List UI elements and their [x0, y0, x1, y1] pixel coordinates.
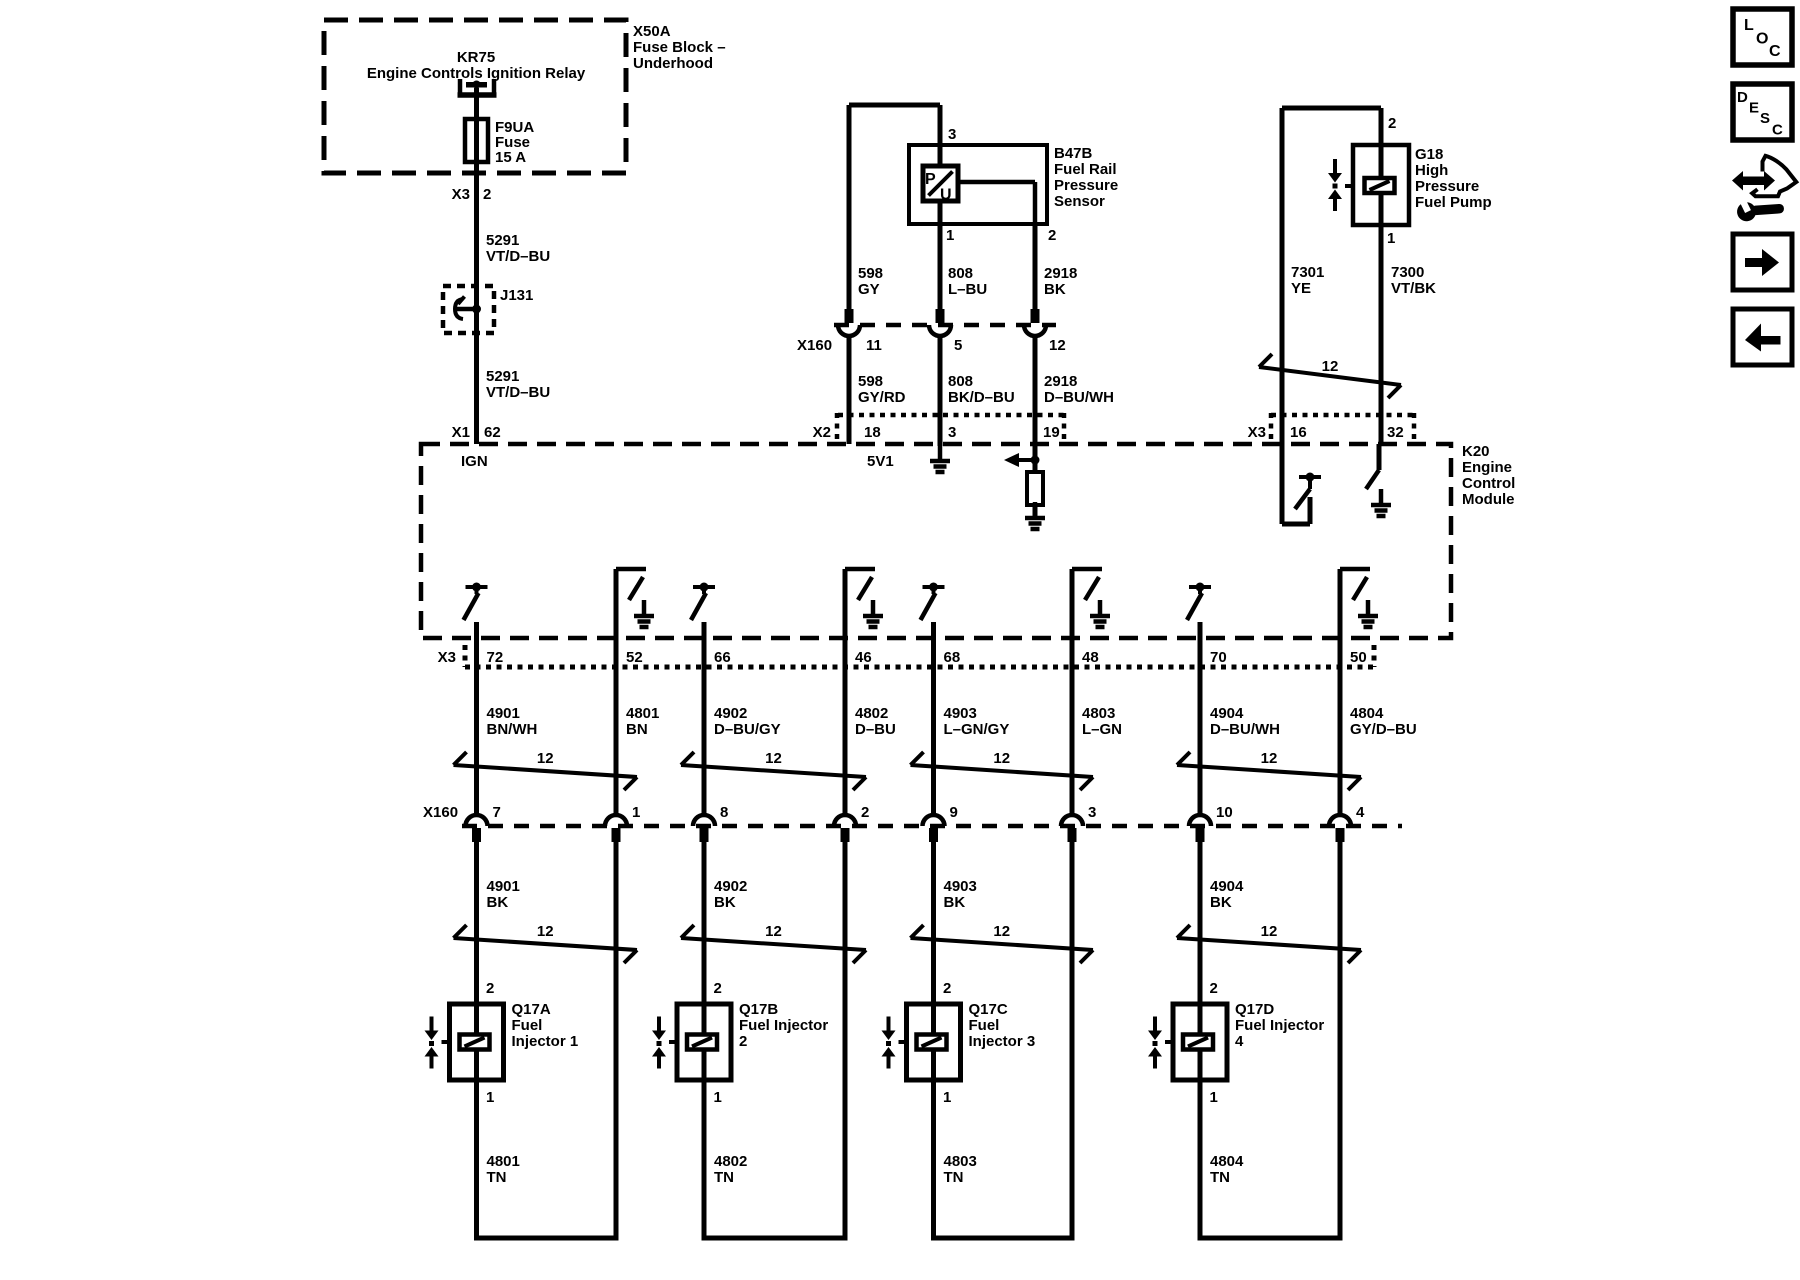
svg-text:BK: BK [1210, 894, 1232, 911]
label pin 2 sensor [1048, 227, 1056, 244]
label injector pin 2 Q17B [714, 980, 722, 997]
wire 4903 L-GN/GY [931, 622, 936, 815]
label pin 16 [1290, 424, 1307, 441]
wire 808 BK/D-BU [938, 336, 943, 445]
svg-text:L–BU: L–BU [948, 281, 987, 298]
svg-text:P: P [925, 171, 936, 188]
connector X160 sensor pin 11 [838, 309, 860, 336]
svg-text:C: C [1772, 122, 1783, 139]
connector label X3 pin 2 [452, 186, 492, 203]
wire label 4901 BK [487, 878, 520, 911]
wire label 4901 [487, 705, 538, 738]
connector X160 pin 7 [466, 815, 488, 842]
wire 4902 BK [702, 840, 707, 1004]
connector X160 sensor dashed line [834, 323, 1056, 328]
label injector pin 1 Q17D [1210, 1089, 1218, 1106]
svg-text:4: 4 [1235, 1033, 1244, 1050]
svg-text:598: 598 [858, 265, 883, 282]
svg-text:12: 12 [1261, 750, 1278, 767]
svg-text:72: 72 [487, 649, 504, 666]
svg-text:4904: 4904 [1210, 878, 1244, 895]
label pin 32 [1387, 424, 1404, 441]
ECM injector high driver pin 70 [1187, 583, 1211, 621]
svg-text:X160: X160 [797, 337, 832, 354]
svg-text:D–BU/WH: D–BU/WH [1210, 721, 1280, 738]
wire label 7301 YE [1291, 264, 1324, 297]
connector X3 pump dotted outline [1271, 413, 1414, 444]
wire 4803 TN [931, 1080, 936, 1238]
svg-text:12: 12 [765, 750, 782, 767]
sensor internal wire to pin 2 [958, 182, 1035, 224]
svg-text:3: 3 [948, 126, 956, 143]
fuel injector Q17A box [450, 1004, 504, 1080]
wire 598 GY sensor pin3 branch [849, 105, 940, 309]
svg-text:L–GN/GY: L–GN/GY [944, 721, 1010, 738]
svg-text:1: 1 [1387, 230, 1395, 247]
svg-text:12: 12 [537, 923, 554, 940]
label X160 sensor [797, 337, 832, 354]
svg-text:62: 62 [484, 424, 501, 441]
svg-text:4901: 4901 [487, 878, 520, 895]
svg-text:18: 18 [864, 424, 881, 441]
svg-text:2: 2 [943, 980, 951, 997]
svg-text:D–BU: D–BU [855, 721, 896, 738]
svg-text:X3: X3 [452, 186, 470, 203]
svg-text:2: 2 [486, 980, 494, 997]
svg-text:O: O [1756, 31, 1768, 48]
wire 4903 BK [931, 840, 936, 1004]
svg-text:2: 2 [1210, 980, 1218, 997]
svg-text:Pressure: Pressure [1054, 177, 1118, 194]
connector X160 pin 9 [923, 815, 945, 842]
svg-text:808: 808 [948, 373, 973, 390]
label pump pin 2 [1388, 115, 1396, 132]
connector X160 pin 10 [1189, 815, 1211, 842]
svg-text:X1: X1 [452, 424, 470, 441]
svg-text:U: U [940, 187, 952, 204]
connector X160 pin 8 [693, 815, 715, 842]
fuel injector Q17D box [1173, 1004, 1227, 1080]
label X160 pin 1 [632, 804, 640, 821]
svg-text:2: 2 [861, 804, 869, 821]
wire label 4801 [626, 705, 659, 738]
wire 2918 D-BU/WH [1033, 336, 1038, 460]
label pin 18 [864, 424, 881, 441]
ECM ground switch pin 32 [1366, 444, 1391, 516]
svg-text:4903: 4903 [944, 878, 977, 895]
wire through injector Q17B [702, 1004, 707, 1080]
svg-text:7301: 7301 [1291, 264, 1324, 281]
svg-text:32: 32 [1387, 424, 1404, 441]
svg-text:D–BU/WH: D–BU/WH [1044, 389, 1114, 406]
svg-text:Fuel Injector: Fuel Injector [1235, 1017, 1324, 1034]
wire through injector Q17D [1198, 1004, 1203, 1080]
ECM injector high driver pin 68 [921, 583, 945, 621]
svg-text:Fuel: Fuel [512, 1017, 543, 1034]
injector return wire [1070, 840, 1075, 1238]
svg-text:52: 52 [626, 649, 643, 666]
svg-text:TN: TN [487, 1169, 507, 1186]
svg-text:4801: 4801 [626, 705, 659, 722]
wire label 808 L-BU [948, 265, 987, 298]
injector Q17B solenoid coil [687, 1035, 717, 1050]
label injector pin 2 Q17A [486, 980, 494, 997]
injector Q17A coil stub [442, 1040, 450, 1044]
injector return wire [1338, 840, 1343, 1238]
label pin 48 [1082, 649, 1099, 666]
svg-text:BN: BN [626, 721, 648, 738]
ECM injector high driver pin 66 [691, 583, 715, 621]
injector Q17D solenoid coil [1183, 1035, 1213, 1050]
ECM injector ground driver pin 50 [1340, 569, 1378, 816]
svg-text:1: 1 [943, 1089, 951, 1106]
label injector pin 1 Q17C [943, 1089, 951, 1106]
svg-text:7: 7 [493, 804, 501, 821]
wire label 4904 [1210, 705, 1280, 738]
injector Q17A bottom return wire [474, 1236, 619, 1241]
svg-text:Sensor: Sensor [1054, 193, 1105, 210]
wire label 5291 VT/D-BU lower [486, 368, 550, 401]
label pin 11 [866, 337, 882, 354]
svg-text:L: L [1744, 17, 1754, 34]
twisted pair crossing upper [911, 750, 1094, 790]
svg-text:4803: 4803 [944, 1153, 977, 1170]
ground ECM resistor [1025, 502, 1045, 529]
wire label 4802 [855, 705, 896, 738]
svg-text:Control: Control [1462, 475, 1515, 492]
svg-text:2: 2 [1048, 227, 1056, 244]
connector X160 pin 3 [1061, 815, 1083, 842]
wire label 598 GY/RD [858, 373, 906, 406]
wire 7301 YE pump [1282, 108, 1381, 444]
svg-text:4803: 4803 [1082, 705, 1115, 722]
svg-text:BK/D–BU: BK/D–BU [948, 389, 1015, 406]
label X160 pin 7 [493, 804, 501, 821]
wire 4802 TN [702, 1080, 707, 1238]
svg-text:K20: K20 [1462, 443, 1490, 460]
twisted pair crossing lower [911, 923, 1094, 963]
label J131 [500, 287, 533, 304]
svg-text:2: 2 [483, 186, 491, 203]
svg-text:YE: YE [1291, 280, 1311, 297]
wire label 598 GY [858, 265, 883, 298]
wire sensor pin 3 vertical [938, 105, 943, 166]
label pump pin 1 [1387, 230, 1395, 247]
injector Q17A valve arrows [425, 1017, 439, 1069]
svg-text:4904: 4904 [1210, 705, 1244, 722]
connector X160 pin 1 [605, 815, 627, 842]
ECM driver pin 16 [1282, 444, 1321, 524]
splice J131 [443, 286, 494, 333]
svg-text:1: 1 [486, 1089, 494, 1106]
svg-text:4903: 4903 [944, 705, 977, 722]
wire label 4803 [1082, 705, 1122, 738]
svg-text:16: 16 [1290, 424, 1307, 441]
svg-text:4902: 4902 [714, 705, 747, 722]
connector X160 pin 2 [834, 815, 856, 842]
ECM K20 dashed box [421, 444, 1451, 638]
svg-text:50: 50 [1350, 649, 1367, 666]
svg-text:4902: 4902 [714, 878, 747, 895]
label injector pin 1 Q17B [714, 1089, 722, 1106]
icon forward arrow box [1733, 234, 1792, 290]
svg-text:BK: BK [1044, 281, 1066, 298]
svg-text:TN: TN [1210, 1169, 1230, 1186]
wire 2918 BK sensor pin2 [1033, 224, 1038, 309]
svg-text:4801: 4801 [487, 1153, 520, 1170]
svg-text:4802: 4802 [714, 1153, 747, 1170]
label Q17C [969, 1001, 1036, 1050]
svg-text:Q17D: Q17D [1235, 1001, 1274, 1018]
label pin 3 sensor [948, 126, 956, 143]
twisted pair crossing upper [1177, 750, 1361, 790]
label B47B Fuel Rail Pressure Sensor [1054, 145, 1118, 210]
ECM pin19 junction and continuation arrow [1004, 453, 1040, 472]
wire label 808 BK/D-BU [948, 373, 1015, 406]
svg-text:VT/D–BU: VT/D–BU [486, 384, 550, 401]
injector Q17D coil stub [1165, 1040, 1173, 1044]
wire 4904 BK [1198, 840, 1203, 1004]
svg-text:4802: 4802 [855, 705, 888, 722]
label X160 pin 8 [720, 804, 728, 821]
injector Q17C solenoid coil [917, 1035, 947, 1050]
wire resistor to ground [1033, 505, 1038, 516]
svg-text:598: 598 [858, 373, 883, 390]
svg-text:D–BU/GY: D–BU/GY [714, 721, 781, 738]
wire through injector Q17A [474, 1004, 479, 1080]
wire relay to fuse [474, 88, 479, 119]
svg-text:BN/WH: BN/WH [487, 721, 538, 738]
label Q17D [1235, 1001, 1324, 1050]
svg-text:12: 12 [765, 923, 782, 940]
pump G18 box [1353, 145, 1409, 225]
fuse F9UA 15A [465, 119, 488, 162]
svg-text:VT/D–BU: VT/D–BU [486, 248, 550, 265]
wire 5291 VT/D-BU from fuse to ECM pin X1-62 [474, 162, 479, 444]
label G18 High Pressure Fuel Pump [1415, 146, 1492, 211]
icon component view arrows and wrench [1732, 156, 1796, 222]
svg-text:19: 19 [1043, 424, 1060, 441]
label injector pin 2 Q17C [943, 980, 951, 997]
svg-text:11: 11 [866, 337, 882, 354]
svg-text:2: 2 [1388, 115, 1396, 132]
svg-text:J131: J131 [500, 287, 533, 304]
svg-text:Engine: Engine [1462, 459, 1512, 476]
svg-text:B47B: B47B [1054, 145, 1093, 162]
wire label 5291 VT/D-BU upper [486, 232, 550, 265]
svg-text:High: High [1415, 162, 1448, 179]
injector Q17B valve arrows [652, 1017, 666, 1069]
svg-text:12: 12 [537, 750, 554, 767]
injector Q17C coil stub [899, 1040, 907, 1044]
connector X3 bottom dotted outline [465, 645, 1374, 667]
icon LOC box [1733, 9, 1792, 65]
pump solenoid coil [1365, 178, 1395, 193]
svg-text:2918: 2918 [1044, 265, 1077, 282]
wire 4801 TN [474, 1080, 479, 1238]
svg-text:C: C [1769, 43, 1781, 60]
svg-text:1: 1 [946, 227, 954, 244]
svg-text:Q17C: Q17C [969, 1001, 1008, 1018]
label pin 3 X2 [948, 424, 956, 441]
svg-text:3: 3 [948, 424, 956, 441]
svg-text:X160: X160 [423, 804, 458, 821]
svg-text:5V1: 5V1 [867, 453, 894, 470]
resistor ECM internal [1027, 472, 1043, 505]
svg-text:3: 3 [1088, 804, 1096, 821]
pump coil stub [1345, 184, 1353, 188]
svg-text:Pressure: Pressure [1415, 178, 1479, 195]
svg-text:D: D [1737, 89, 1748, 106]
wire label 2918 D-BU/WH [1044, 373, 1114, 406]
label KR75 Engine Controls Ignition Relay [367, 49, 586, 82]
svg-text:Fuse Block –: Fuse Block – [633, 39, 726, 56]
svg-text:L–GN: L–GN [1082, 721, 1122, 738]
svg-text:Underhood: Underhood [633, 55, 713, 72]
connector X160 bottom dashed line [462, 824, 1402, 829]
svg-text:4804: 4804 [1350, 705, 1384, 722]
label X2 [813, 424, 831, 441]
wire label 4802 TN [714, 1153, 747, 1186]
svg-text:68: 68 [944, 649, 961, 666]
svg-text:2918: 2918 [1044, 373, 1077, 390]
ECM injector ground driver pin 52 [616, 569, 654, 816]
label X160 pin 4 [1356, 804, 1365, 821]
fuel injector Q17C box [907, 1004, 961, 1080]
label X160 bottom [423, 804, 458, 821]
wire 4904 D-BU/WH [1198, 622, 1203, 815]
wire label 4803 TN [944, 1153, 977, 1186]
wire pump pin 1 inside [1379, 194, 1384, 444]
label pin 68 [944, 649, 961, 666]
label pin 52 [626, 649, 643, 666]
ECM injector ground driver pin 48 [1072, 569, 1110, 816]
svg-text:5291: 5291 [486, 232, 519, 249]
svg-text:Engine Controls Ignition Relay: Engine Controls Ignition Relay [367, 65, 586, 82]
label injector pin 1 Q17A [486, 1089, 494, 1106]
label injector pin 2 Q17D [1210, 980, 1218, 997]
svg-text:2: 2 [714, 980, 722, 997]
injector Q17C bottom return wire [931, 1236, 1075, 1241]
svg-text:9: 9 [950, 804, 958, 821]
svg-text:Fuel Pump: Fuel Pump [1415, 194, 1492, 211]
twisted pair crossing upper [681, 750, 866, 790]
svg-text:808: 808 [948, 265, 973, 282]
icon DESC box [1733, 84, 1792, 140]
label pin 70 [1210, 649, 1227, 666]
svg-text:12: 12 [1049, 337, 1066, 354]
svg-text:BK: BK [714, 894, 736, 911]
wire 4804 TN [1198, 1080, 1203, 1238]
svg-text:TN: TN [714, 1169, 734, 1186]
label X3 bottom [438, 649, 456, 666]
wire 4901 BN/WH [474, 622, 479, 815]
wire label 4904 BK [1210, 878, 1244, 911]
svg-text:Q17A: Q17A [512, 1001, 551, 1018]
wire through injector Q17C [931, 1004, 936, 1080]
wire label 7300 VT/BK [1391, 264, 1436, 297]
fuse block X50A dashed box [324, 20, 626, 173]
svg-text:15 A: 15 A [495, 149, 526, 166]
label pin 12 [1049, 337, 1066, 354]
twisted pair crossing upper [454, 750, 638, 790]
svg-text:Injector 3: Injector 3 [969, 1033, 1036, 1050]
svg-text:S: S [1760, 110, 1770, 127]
svg-text:7300: 7300 [1391, 264, 1424, 281]
svg-text:E: E [1749, 100, 1759, 117]
injector Q17D bottom return wire [1198, 1236, 1343, 1241]
wire label 4804 TN [1210, 1153, 1244, 1186]
injector return wire [843, 840, 848, 1238]
label X160 pin 2 [861, 804, 869, 821]
label Q17A [512, 1001, 579, 1050]
label K20 Engine Control Module [1462, 443, 1515, 508]
ground ECM pin 3 [930, 445, 950, 472]
label X3 pump [1248, 424, 1266, 441]
svg-text:4901: 4901 [487, 705, 520, 722]
wire label 4903 BK [944, 878, 977, 911]
sensor P/U element [923, 166, 958, 204]
svg-text:GY/D–BU: GY/D–BU [1350, 721, 1417, 738]
ECM injector high driver pin 72 [464, 583, 488, 621]
label 5V1 [867, 453, 894, 470]
label X160 pin 3 [1088, 804, 1096, 821]
label pin 50 [1350, 649, 1367, 666]
twisted pair crossing pump [1259, 354, 1401, 398]
twisted pair crossing lower [681, 923, 866, 963]
svg-text:Fuel: Fuel [969, 1017, 1000, 1034]
wire label 4801 TN [487, 1153, 520, 1186]
label Q17B [739, 1001, 828, 1050]
ECM injector ground driver pin 46 [845, 569, 883, 816]
wire label 2918 BK [1044, 265, 1077, 298]
svg-text:X50A: X50A [633, 23, 671, 40]
wire label 4804 [1350, 705, 1417, 738]
label X160 pin 10 [1216, 804, 1233, 821]
svg-text:X3: X3 [1248, 424, 1266, 441]
svg-text:46: 46 [855, 649, 872, 666]
injector Q17B coil stub [669, 1040, 677, 1044]
svg-text:KR75: KR75 [457, 49, 495, 66]
svg-text:Fuel Rail: Fuel Rail [1054, 161, 1117, 178]
svg-text:Q17B: Q17B [739, 1001, 778, 1018]
svg-text:12: 12 [1261, 923, 1278, 940]
wire label 4902 BK [714, 878, 747, 911]
svg-text:12: 12 [993, 750, 1010, 767]
pump valve arrows [1328, 159, 1342, 211]
label pin 66 [714, 649, 731, 666]
svg-text:GY: GY [858, 281, 880, 298]
twisted pair crossing lower [1177, 923, 1361, 963]
injector Q17A solenoid coil [460, 1035, 490, 1050]
connector label X1 pin 62 [452, 424, 501, 441]
svg-text:4: 4 [1356, 804, 1365, 821]
label pin 5 [954, 337, 962, 354]
fuel injector Q17B box [677, 1004, 731, 1080]
wire 808 L-BU sensor pin1 [938, 201, 943, 309]
svg-text:BK: BK [487, 894, 509, 911]
label pin 19 [1043, 424, 1060, 441]
svg-text:2: 2 [739, 1033, 747, 1050]
svg-text:1: 1 [632, 804, 640, 821]
icon back arrow box [1733, 309, 1792, 365]
svg-text:70: 70 [1210, 649, 1227, 666]
label X50A Fuse Block Underhood [633, 23, 726, 72]
wire pump pin 2 [1379, 108, 1384, 177]
svg-text:5: 5 [954, 337, 962, 354]
svg-text:BK: BK [944, 894, 966, 911]
label F9UA Fuse 15 A [495, 119, 534, 166]
